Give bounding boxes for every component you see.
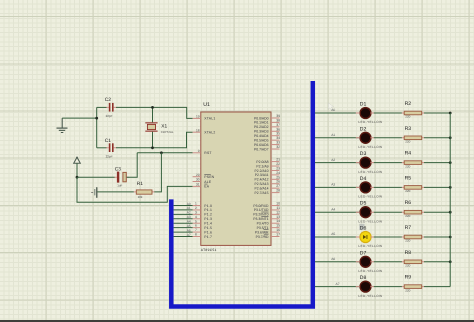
svg-text:C2: C2 [105,97,111,103]
wire bus to D6 net A5 [315,232,360,237]
svg-text:38: 38 [276,118,280,122]
svg-text:R3: R3 [405,126,412,132]
svg-text:A2: A2 [331,158,335,162]
svg-text:X1: X1 [161,123,167,129]
svg-text:AT89C51: AT89C51 [201,248,217,252]
svg-text:2: 2 [195,206,197,210]
wire R9 to rail [424,286,450,288]
capacitor C1 [105,138,116,159]
pin 12 P3.2/INT0 [253,210,280,216]
wire C1 left [97,147,107,149]
svg-text:10: 10 [276,202,280,206]
svg-text:28: 28 [276,189,280,193]
pin 24 P2.3/A11 [255,171,280,177]
resistor R8 [402,250,424,268]
wire bus to P1.5 net A5 [174,224,193,228]
svg-text:220: 220 [405,264,410,268]
svg-text:A4: A4 [331,207,335,211]
svg-text:19: 19 [196,115,200,119]
wire R1 to RST [154,153,161,192]
pin 26 P2.5/A13 [255,180,281,186]
wire crystal top [152,107,154,122]
svg-text:P3.5/T1: P3.5/T1 [257,226,269,230]
pin 37 P0.2/AD2 [254,123,280,129]
svg-text:220: 220 [405,164,410,168]
wire crystal bottom [152,132,154,148]
svg-text:A7: A7 [187,233,191,237]
svg-text:A6: A6 [331,257,335,261]
svg-text:P3.2/INT0: P3.2/INT0 [253,213,268,217]
svg-text:1uF: 1uF [117,184,122,188]
svg-text:23: 23 [276,166,280,170]
svg-text:10k: 10k [138,195,143,199]
svg-text:8: 8 [195,233,197,237]
wire bus to P1.2 net A2 [174,211,193,215]
svg-text:A3: A3 [187,215,191,219]
svg-text:LED-YELLOW: LED-YELLOW [358,269,382,273]
svg-text:RST: RST [204,151,211,155]
resistor R4 [402,151,424,169]
svg-text:6: 6 [195,224,197,228]
wire bus to D4 net A3 [315,183,360,188]
svg-text:P1.2: P1.2 [204,213,212,217]
pin 39 P0.0/AD0 [254,114,280,120]
wire RST net [137,152,192,154]
svg-text:A0: A0 [187,202,191,206]
resistor R2 [402,101,424,119]
svg-text:P0.1/AD1: P0.1/AD1 [254,121,269,125]
svg-text:R9: R9 [405,275,412,281]
resistor R6 [402,200,424,218]
svg-text:11: 11 [276,206,280,210]
pin 4 P1.3 [193,215,212,221]
svg-text:D5: D5 [360,201,367,207]
svg-text:P1.3: P1.3 [204,217,212,221]
svg-text:EA: EA [204,185,209,189]
svg-text:220: 220 [405,140,410,144]
svg-text:A4: A4 [187,220,191,224]
wire D6 to R7 [356,236,402,238]
svg-text:XTAL1: XTAL1 [204,117,215,121]
svg-text:220: 220 [405,239,410,243]
svg-text:LED-YELLOW: LED-YELLOW [358,195,382,199]
wire D2 to R3 [356,137,402,139]
pin 10 P3.0/RXD [253,202,280,208]
wire C1 to XTAL2 [116,132,193,148]
svg-text:ALE: ALE [204,180,212,184]
svg-text:15: 15 [276,224,280,228]
svg-text:R8: R8 [405,250,412,256]
pin 9 RST [193,149,212,155]
resistor R5 [402,175,424,193]
wire R4 to rail [424,162,450,164]
svg-text:D1: D1 [360,102,367,108]
wire battery to R1 [97,191,133,193]
pin 32 P0.7/AD7 [254,145,280,151]
wire bus to D5 net A4 [315,207,360,212]
wire R6 to rail [424,211,450,213]
svg-text:4: 4 [195,215,197,219]
wire bus to P1.1 net A1 [174,206,193,210]
wire common rail right [449,113,451,287]
pin 33 P0.6/AD6 [254,141,280,147]
svg-text:22pF: 22pF [106,155,113,159]
LED D7 [358,250,382,273]
pin 34 P0.5/AD5 [254,136,280,142]
svg-text:29: 29 [196,173,200,177]
power VCC arrow [74,157,81,177]
svg-text:P2.1/A9: P2.1/A9 [256,164,268,168]
wire R8 to rail [424,261,450,263]
svg-text:27: 27 [276,184,280,188]
op: chip U1 AT89C51 body [201,102,271,252]
pin 5 P1.4 [193,219,212,225]
svg-text:A5: A5 [187,224,191,228]
svg-text:P1.7: P1.7 [204,235,212,239]
svg-text:D8: D8 [360,275,367,281]
pin 16 P3.6/WR [255,228,280,234]
junction rail row 4 [449,186,452,189]
svg-text:A6: A6 [187,228,191,232]
wire D7 to R8 [356,261,402,263]
svg-text:LED-YELLOW: LED-YELLOW [358,170,382,174]
svg-text:C3: C3 [115,166,121,172]
svg-text:13: 13 [276,215,280,219]
svg-text:P3.7/RD: P3.7/RD [256,235,269,239]
svg-text:32: 32 [276,145,280,149]
wire bus to D7 net A6 [315,257,360,262]
wire R3 to rail [424,137,450,139]
svg-text:P3.3/INT1: P3.3/INT1 [253,217,268,221]
svg-text:17: 17 [276,232,280,236]
svg-text:P1.4: P1.4 [204,222,212,226]
svg-text:P0.5/AD5: P0.5/AD5 [254,138,269,142]
wire D5 to R6 [356,211,402,213]
wire R5 to rail [424,186,450,188]
svg-text:22pF: 22pF [106,114,113,118]
svg-text:D6: D6 [360,226,367,232]
svg-text:P2.0/A8: P2.0/A8 [256,160,268,164]
svg-text:36: 36 [276,127,280,131]
svg-text:A1: A1 [187,206,191,210]
pin 2 P1.1 [193,206,212,212]
svg-text:220: 220 [405,115,410,119]
wire D8 to R9 [356,286,402,288]
crystal X1 [145,122,174,134]
resistor R3 [402,126,424,144]
wire C3 to RST riser [127,153,138,177]
svg-text:R2: R2 [405,101,412,107]
svg-text:34: 34 [276,136,280,140]
LED D8 [358,275,382,298]
wire bus to P1.6 net A6 [174,228,193,232]
svg-text:R5: R5 [405,175,412,181]
LED D3 [358,151,382,174]
pin 22 P2.1/A9 [256,162,280,168]
svg-text:P2.2/A10: P2.2/A10 [255,169,269,173]
svg-text:LED-YELLOW: LED-YELLOW [358,294,382,298]
pin 18 XTAL2 [193,128,216,134]
wire bus to P1.7 net A7 [174,233,193,237]
wire D4 to R5 [356,186,402,188]
wire R7 to rail [424,236,450,238]
resistor R7 [402,225,424,243]
svg-text:26: 26 [276,180,280,184]
svg-text:35: 35 [276,132,280,136]
svg-text:P1.1: P1.1 [204,208,212,212]
svg-text:5: 5 [195,219,197,223]
wire ground to C2/C1 rail [62,117,96,119]
pin 28 P2.7/A15 [255,189,281,195]
capacitor C2 [105,97,116,118]
pin 11 P3.1/TXD [254,206,280,212]
pin 8 P1.7 [193,233,212,239]
svg-text:220: 220 [405,189,410,193]
svg-text:P2.4/A12: P2.4/A12 [255,178,269,182]
wire D3 to R4 [356,162,402,164]
pin 36 P0.3/AD3 [254,127,280,133]
wire R2 to rail [424,112,450,114]
svg-text:1: 1 [195,202,197,206]
pin 30 ALE [193,178,212,184]
svg-text:P3.1/TXD: P3.1/TXD [254,208,269,212]
svg-text:C1: C1 [105,138,111,144]
LED D6 [358,224,382,248]
LED D2 [358,126,382,149]
junction rail row 1 [449,112,452,115]
svg-text:P3.0/RXD: P3.0/RXD [253,204,269,208]
pin 27 P2.6/A14 [255,184,281,190]
pin 1 P1.0 [193,202,212,208]
junction rail row 3 [449,161,452,164]
svg-text:A2: A2 [187,211,191,215]
resistor R9 [402,275,424,293]
pin 14 P3.4/T0 [257,219,280,225]
svg-text:P0.0/AD0: P0.0/AD0 [254,116,269,120]
svg-text:A1: A1 [331,133,335,137]
junction rail row 7 [449,260,452,263]
junction rail row 6 [449,236,452,239]
wire C2 left [97,106,107,108]
LED D4 [358,176,382,199]
svg-text:22: 22 [276,162,280,166]
svg-text:R1: R1 [137,181,143,187]
wire bus to P1.4 net A4 [174,220,193,224]
svg-text:P2.6/A14: P2.6/A14 [255,186,269,190]
junction VCC node [76,176,79,179]
svg-text:30: 30 [196,178,200,182]
svg-text:25: 25 [276,175,280,179]
svg-text:3: 3 [195,210,197,214]
pin 17 P3.7/RD [256,232,280,238]
svg-text:31: 31 [196,183,200,187]
svg-text:P3.4/T0: P3.4/T0 [257,222,269,226]
svg-text:12: 12 [276,210,280,214]
wire bus to D2 net A1 [315,133,360,138]
svg-text:R6: R6 [405,200,412,206]
svg-text:P1.5: P1.5 [204,226,212,230]
LED D5 [358,201,382,224]
svg-text:16: 16 [276,228,280,232]
svg-text:24: 24 [276,171,280,175]
wire bus to D8 net A7 [315,282,360,287]
svg-text:PSEN: PSEN [204,175,214,179]
wire bus to P1.3 net A3 [174,215,193,219]
pin 29 PSEN [193,173,215,179]
svg-text:R7: R7 [405,225,412,231]
LED D1 [358,102,382,125]
svg-text:18: 18 [196,128,200,132]
svg-text:LED-YELLOW: LED-YELLOW [358,219,382,223]
svg-text:14: 14 [276,219,280,223]
capacitor C3 [114,166,128,187]
wire VCC down to EA [77,177,193,202]
junction crystal bottom [151,146,154,149]
pin 31 EA [193,183,210,189]
wire VCC to C3 [77,176,115,178]
svg-text:R4: R4 [405,151,412,157]
svg-text:D7: D7 [360,250,367,256]
svg-text:D2: D2 [360,126,367,132]
svg-text:A5: A5 [331,232,335,236]
svg-text:P0.6/AD6: P0.6/AD6 [254,143,269,147]
svg-text:220: 220 [405,214,410,218]
svg-text:A7: A7 [336,282,340,286]
junction crystal top [151,106,154,109]
svg-text:P1.0: P1.0 [204,204,212,208]
svg-text:A3: A3 [331,183,335,187]
svg-text:D4: D4 [360,176,367,182]
bus P1 to LEDs [171,81,312,307]
ground [57,118,68,133]
svg-text:LED-YELLOW: LED-YELLOW [358,145,382,149]
svg-text:33: 33 [276,141,280,145]
svg-text:P2.3/A11: P2.3/A11 [255,173,269,177]
svg-text:XTAL2: XTAL2 [204,131,215,135]
svg-text:LED-YELLOW: LED-YELLOW [358,244,382,248]
svg-text:CRYSTAL: CRYSTAL [161,130,174,134]
wire C2 to XTAL1 [116,107,193,118]
battery cell [91,187,97,198]
wire bus to D1 net A0 [315,108,360,113]
wire bus to P1.0 net A0 [174,202,193,206]
svg-text:P0.3/AD3: P0.3/AD3 [254,130,269,134]
pin 25 P2.4/A12 [255,175,281,181]
junction rail row 2 [449,136,452,139]
svg-text:39: 39 [276,114,280,118]
svg-text:D3: D3 [360,151,367,157]
wire rail C2-C1 left [96,107,98,147]
svg-text:P3.6/WR: P3.6/WR [255,230,269,234]
junction ground rail [95,117,98,120]
pin 7 P1.6 [193,228,212,234]
svg-text:LED-YELLOW: LED-YELLOW [358,120,382,124]
junction RST [160,151,163,154]
pin 35 P0.4/AD4 [254,132,280,138]
pin 6 P1.5 [193,224,212,230]
svg-text:P2.7/A15: P2.7/A15 [255,191,269,195]
svg-text:21: 21 [276,158,280,162]
pin 3 P1.2 [193,210,212,216]
svg-text:P2.5/A13: P2.5/A13 [255,182,269,186]
pin 15 P3.5/T1 [257,224,280,230]
svg-text:P1.6: P1.6 [204,230,212,234]
pin 21 P2.0/A8 [256,158,280,164]
svg-text:7: 7 [195,228,197,232]
pin 19 XTAL1 [193,115,216,121]
svg-text:P0.7/AD7: P0.7/AD7 [254,147,269,151]
svg-text:U1: U1 [203,102,210,108]
svg-text:P0.4/AD4: P0.4/AD4 [254,134,269,138]
wire D1 to R2 [356,112,402,114]
pin 23 P2.2/A10 [255,166,281,172]
resistor R1 [134,181,155,199]
svg-text:220: 220 [405,288,410,292]
junction rail row 5 [449,211,452,214]
pin 13 P3.3/INT1 [253,215,280,221]
mouse cursor [328,103,334,110]
pin 38 P0.1/AD1 [254,118,280,124]
wire bus to D3 net A2 [315,158,360,163]
svg-text:9: 9 [198,149,200,153]
svg-text:37: 37 [276,123,280,127]
svg-text:P0.2/AD2: P0.2/AD2 [254,125,269,129]
